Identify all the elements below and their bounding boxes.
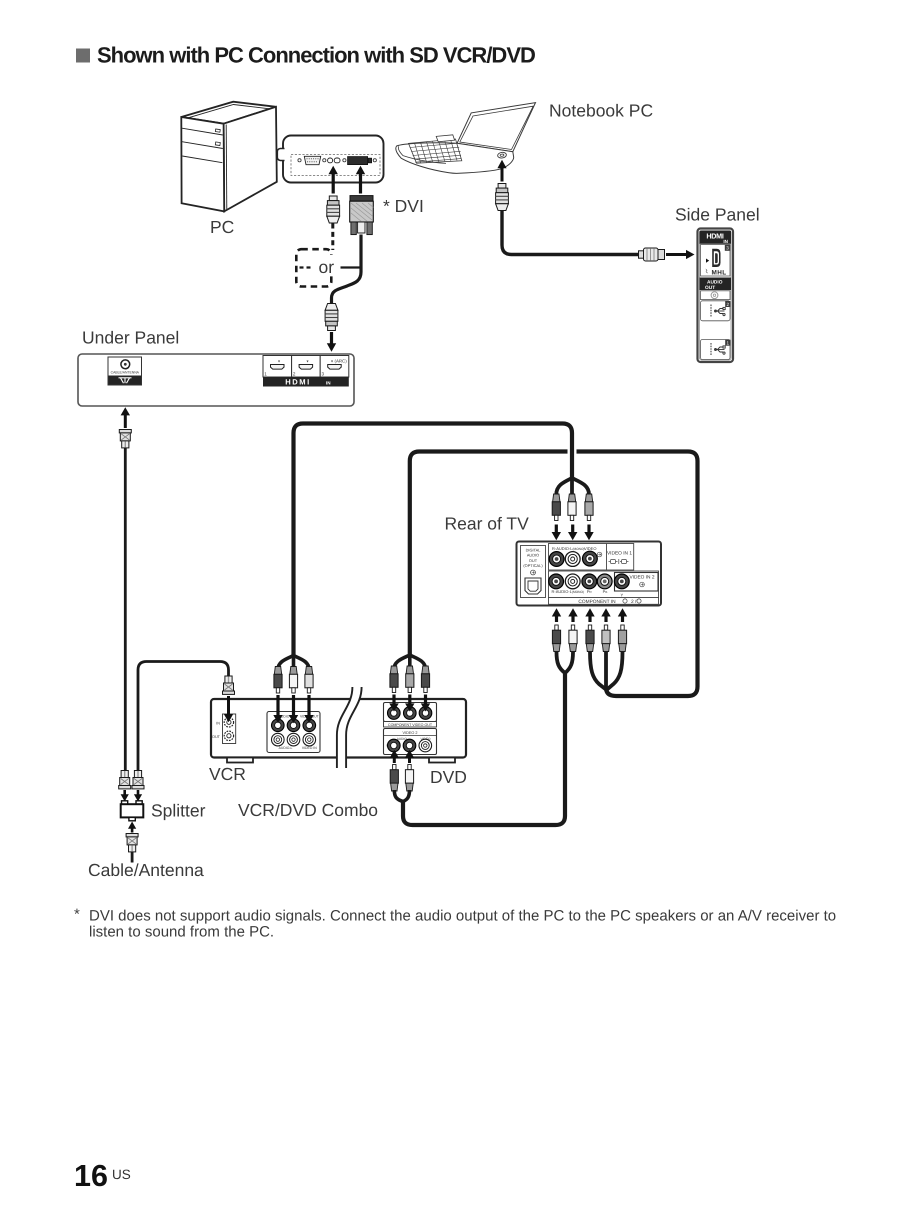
svg-text:2 /: 2 / (631, 599, 637, 605)
headphone cell (701, 291, 731, 300)
svg-text:VCR: VCR (209, 764, 246, 784)
f-connector: splitter right input (132, 771, 144, 789)
wire: tower to callout (277, 153, 283, 155)
dashed or-box (296, 249, 331, 286)
svg-text:▼: ▼ (306, 359, 310, 363)
wire: cable/antenna stub (131, 852, 134, 863)
PC tower (181, 102, 276, 212)
wire: or to dvi cable (341, 266, 362, 268)
rca plugs below tv (552, 625, 560, 652)
title block (76, 43, 535, 68)
arrow: hdmi cable into callout (329, 166, 338, 194)
wire loop C: DVD audio out to TV audio in (403, 673, 565, 825)
video in 1 row (549, 544, 634, 571)
svg-text:VCR/DVD Combo: VCR/DVD Combo (238, 800, 378, 820)
svg-text:▼: ▼ (330, 359, 334, 363)
component in jacks (549, 574, 564, 589)
arrow: cable into side panel (666, 250, 695, 259)
plug bundle into tv video in 1 (556, 476, 589, 495)
vcr av out section (267, 712, 320, 753)
dvi connector (350, 196, 374, 235)
vcr av out jacks (272, 719, 285, 732)
arrow into vcr rf in (224, 696, 233, 722)
f-connector into vcr rf in (223, 676, 235, 694)
hdmi connector B (to under panel) (325, 304, 338, 331)
svg-text:Cable/Antenna: Cable/Antenna (88, 860, 204, 880)
hdmi sections (263, 356, 349, 387)
audio pair cables to loop C (557, 652, 566, 673)
svg-text:HDMI: HDMI (285, 378, 310, 387)
svg-text:CABLE/ANTENNA: CABLE/ANTENNA (111, 370, 140, 374)
svg-text:(OPTICAL): (OPTICAL) (523, 563, 543, 568)
svg-text:OUT: OUT (705, 285, 715, 291)
wire: under panel to splitter (124, 448, 127, 770)
dvi port (348, 157, 368, 165)
cable/antenna jack section (108, 357, 142, 385)
svg-text:2: 2 (727, 302, 730, 307)
component in row (549, 571, 659, 605)
svg-text:PC: PC (210, 217, 234, 237)
arrow: up into under panel (antenna) (121, 407, 130, 428)
digital audio out optical section (521, 546, 546, 598)
vcr rf section (212, 714, 236, 744)
svg-text:US: US (112, 1167, 131, 1182)
wire: splitter right to VCR RF (138, 662, 229, 771)
svg-text:Side Panel: Side Panel (675, 205, 760, 225)
svg-text:Rear of TV: Rear of TV (445, 514, 530, 534)
dashed cable from hdmi A (331, 224, 334, 251)
dvd component video out section (384, 703, 437, 728)
svg-text:Under Panel: Under Panel (82, 328, 179, 348)
wire: notebook to side panel (502, 211, 639, 255)
svg-text:Shown with PC Connection with: Shown with PC Connection with SD VCR/DVD (97, 43, 535, 68)
svg-text:VIDEO IN 1: VIDEO IN 1 (607, 551, 632, 557)
svg-text:▼: ▼ (277, 359, 281, 363)
rca plugs (video in 1) (552, 494, 560, 521)
arrow: hdmi cable into notebook (497, 160, 506, 182)
svg-text:PR: PR (587, 589, 593, 594)
arrows into tv bottom (552, 608, 627, 622)
under panel box (78, 354, 354, 406)
svg-text:AUDIO: AUDIO (707, 279, 723, 285)
dvd video 2 section (384, 729, 437, 755)
usb cell 1 (701, 301, 731, 321)
splitter body (121, 801, 144, 821)
svg-text:HDMI: HDMI (706, 232, 723, 241)
svg-text:VIDEO: VIDEO (584, 546, 596, 551)
audio out dark band (700, 278, 732, 291)
svg-text:(ARC): (ARC) (335, 359, 348, 364)
rca plugs below dvd (390, 765, 398, 792)
svg-text:2: 2 (293, 372, 296, 377)
dashed stub in or-box (300, 266, 314, 268)
f-connector: splitter left input (119, 771, 131, 789)
f-connector below under panel (119, 430, 131, 448)
plug bundle into dvd component out (394, 653, 426, 669)
arrow into splitter right (134, 790, 142, 802)
small ports (328, 158, 333, 163)
wire loop B: DVD component out to TV component in (410, 452, 698, 697)
svg-text:IN: IN (216, 722, 220, 726)
svg-text:VIDEO IN 2: VIDEO IN 2 (629, 575, 654, 581)
svg-text:Y: Y (620, 593, 623, 598)
hdmi/mhl port cell (701, 245, 731, 277)
svg-text:listen to sound from the PC.: listen to sound from the PC. (89, 924, 274, 941)
or label (315, 255, 339, 277)
svg-text:16: 16 (74, 1159, 108, 1193)
usb cell 2 (701, 340, 731, 360)
tv rear panel box (517, 542, 662, 606)
svg-text:R-AUDIO-L(MONO): R-AUDIO-L(MONO) (552, 546, 585, 551)
svg-text:MHL: MHL (711, 270, 726, 277)
arrow: hdmi B into under panel (327, 332, 336, 352)
component trio cables to loop B (590, 652, 606, 690)
svg-text:1: 1 (727, 341, 730, 346)
svg-text:IN: IN (723, 239, 728, 244)
barrel connector on cable (639, 248, 665, 261)
combo feet (227, 758, 253, 763)
wire loop A: VCR av out to TV video in 1 (crosses loop B) (294, 424, 573, 657)
arrows into dvd component out (389, 695, 430, 712)
svg-text:3: 3 (726, 246, 729, 251)
arrows into tv top (552, 525, 594, 541)
svg-text:OUT: OUT (212, 735, 221, 739)
svg-text:3: 3 (322, 372, 325, 377)
plug bundle into vcr av out (278, 653, 309, 670)
f-connector: cable/antenna (126, 834, 138, 852)
arrow: up into splitter bottom (128, 822, 136, 833)
notebook pc (396, 103, 536, 174)
break mark in combo box (337, 687, 362, 768)
svg-text:PB: PB (603, 589, 608, 594)
dvd audio pair cables to loop C (394, 790, 403, 802)
side panel box (698, 229, 734, 363)
svg-text:* DVI: * DVI (383, 196, 424, 216)
video in 1 jacks (549, 552, 564, 567)
svg-text:DVD: DVD (430, 767, 467, 787)
wire: dvi cable S-curve down to hdmi B (332, 235, 362, 304)
svg-text:DVI does not support audio sig: DVI does not support audio signals. Conn… (89, 908, 836, 925)
svg-text:or: or (319, 257, 335, 277)
svg-text:IN: IN (326, 380, 331, 385)
footnote (74, 906, 836, 941)
hdmi connector (notebook) (496, 184, 509, 211)
svg-text:AUDIO-L: AUDIO-L (279, 746, 293, 750)
arrows into vcr av out (273, 695, 313, 723)
svg-text:VIDEO 2: VIDEO 2 (403, 731, 418, 735)
svg-text:*: * (74, 906, 80, 923)
arrow into splitter left (121, 790, 129, 802)
svg-text:1: 1 (264, 372, 267, 377)
svg-text:COMPONENT IN: COMPONENT IN (578, 599, 616, 605)
arrows into dvd video2 audio (390, 750, 415, 763)
PC rear port callout panel (277, 136, 383, 183)
svg-text:COMPONENT VIDEO OUT: COMPONENT VIDEO OUT (388, 723, 433, 727)
vga port (298, 159, 301, 162)
hdmi in dark band (700, 231, 732, 244)
hdmi connector A (pc side) (327, 196, 340, 223)
svg-text:Notebook PC: Notebook PC (549, 101, 653, 121)
vcr/dvd combo box (211, 699, 466, 758)
arrow: dvi cable into callout (356, 166, 365, 194)
svg-text:Splitter: Splitter (151, 801, 206, 821)
svg-text:R-AUDIO-L(MONO): R-AUDIO-L(MONO) (552, 589, 585, 594)
